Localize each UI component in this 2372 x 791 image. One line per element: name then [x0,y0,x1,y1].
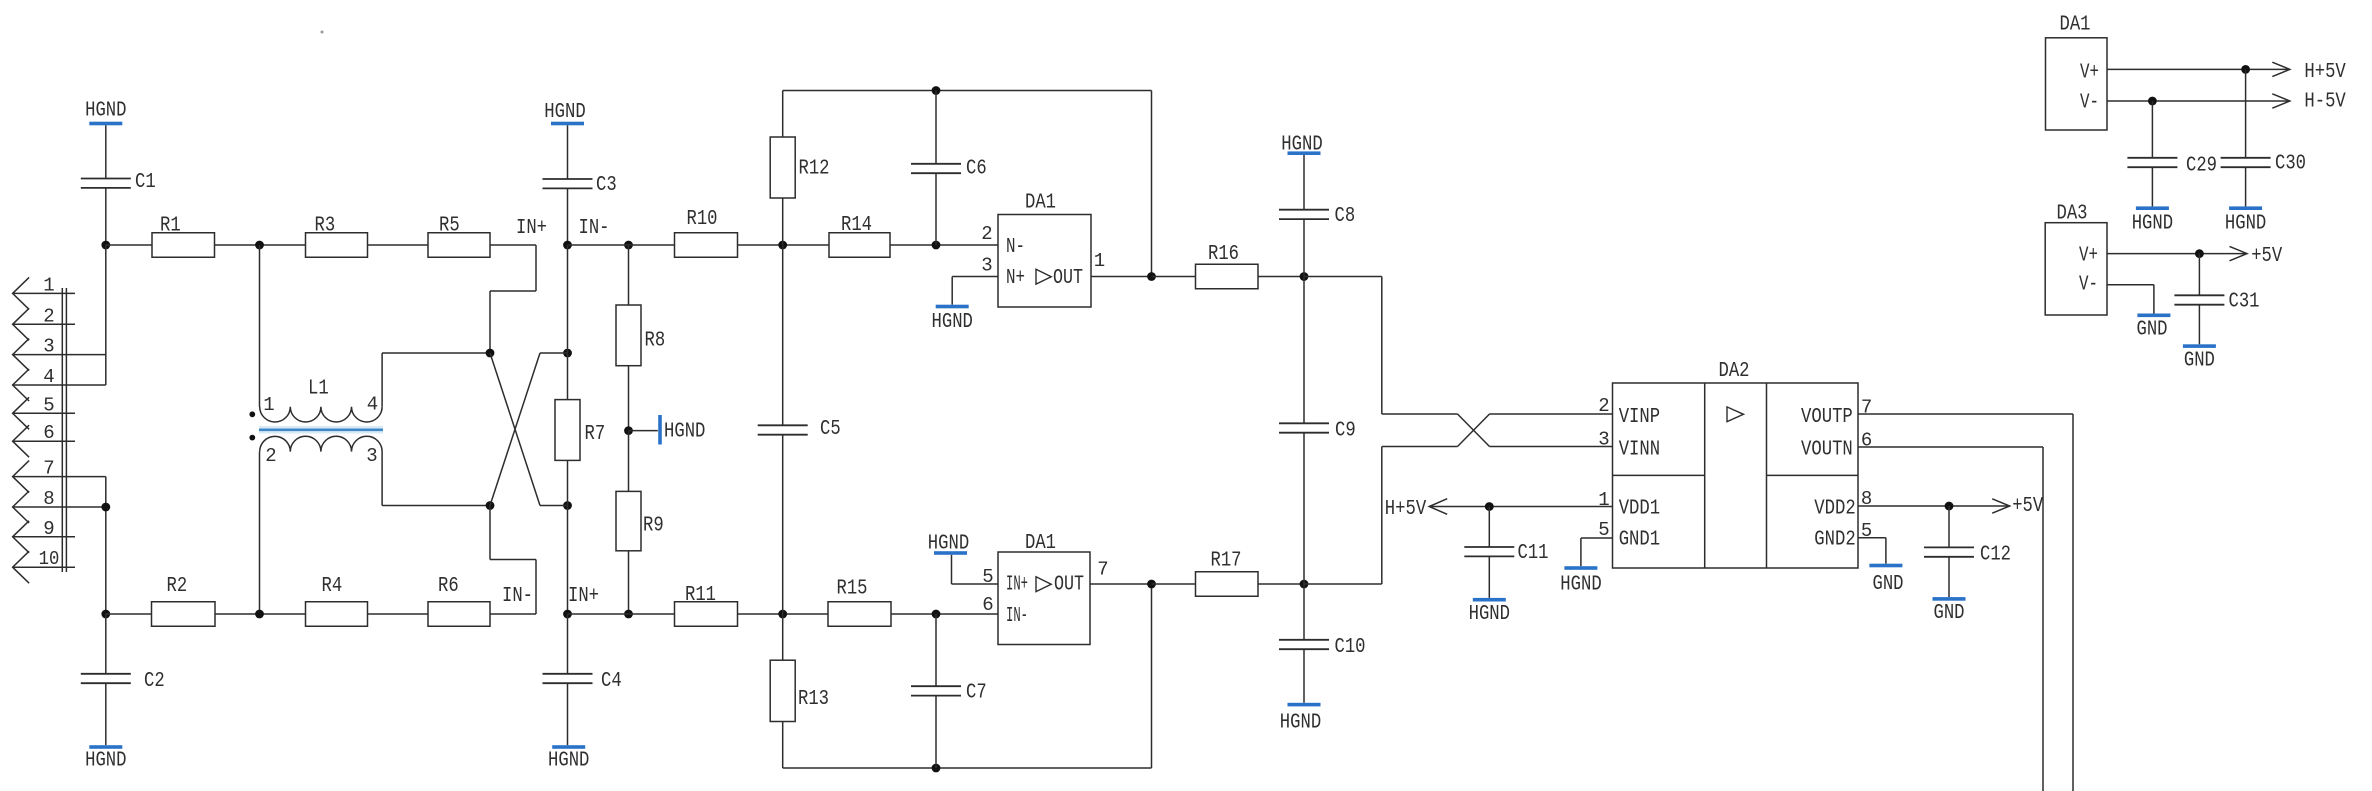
wire C2 to hgnd [105,683,107,745]
junction n18 [1147,580,1156,589]
svg-text:C6: C6 [966,158,987,181]
capacitor C9 [1279,420,1356,443]
svg-text:+5V: +5V [2012,495,2043,518]
svg-text:HGND: HGND [1281,134,1322,157]
wire rail2 to R13 [782,614,784,660]
svg-text:C10: C10 [1335,636,1366,659]
svg-text:C8: C8 [1335,205,1356,228]
wire C6 to rail [935,173,937,245]
wire C10 to hgnd [1303,649,1305,703]
wire C1 to rail [105,188,107,245]
junction n22 [1945,502,1954,511]
junction n19 [1300,272,1309,281]
connector pin 7 [13,458,106,493]
wire DA1t out [1091,276,1152,278]
ground HGND [2132,206,2173,235]
svg-text:C1: C1 [135,171,156,194]
svg-text:R2: R2 [167,575,188,598]
junction n15 [932,86,941,95]
wire C9 to n20 [1303,433,1305,584]
wire R16 to cross [1304,277,1458,415]
svg-text:VINN: VINN [1619,439,1660,462]
svg-text:2: 2 [43,305,54,327]
svg-text:C11: C11 [1518,542,1549,565]
wire C30 to hgnd [2245,167,2247,206]
svg-text:V-: V- [2080,92,2099,115]
svg-text:R1: R1 [160,215,181,238]
op-amp DA1 (bottom) [982,532,1108,645]
svg-text:6: 6 [982,594,993,616]
wire C31 to gnd [2198,305,2200,345]
connector pin 1 [13,274,75,309]
wire rail to R8 [628,245,630,305]
junction n7 [563,610,572,619]
resistor R15 [828,578,891,627]
svg-text:7: 7 [43,458,54,480]
svg-text:R5: R5 [439,215,460,238]
connector bus [62,288,66,572]
connector pin 5 [13,394,75,429]
wire rail to C5 [782,245,784,425]
wire R9 to rail2 [628,551,630,614]
resistor R16 [1196,243,1259,289]
power module DA1 (top right) [2046,14,2108,131]
svg-text:DA2: DA2 [1719,360,1750,383]
wire mid to R9 [628,431,630,492]
ground HGND [85,100,126,126]
wire to C31 [2198,254,2200,296]
svg-text:C4: C4 [601,670,622,693]
op-amp DA1 (top) [981,192,1105,308]
power flag H+5V (VDD1) [1385,498,1613,521]
svg-text:IN+: IN+ [1006,574,1028,597]
ground HGND [544,101,585,125]
junction n25 [2195,249,2204,258]
svg-text:6: 6 [1861,430,1872,452]
connector pin 9 [13,518,75,553]
wire rail2 to C2 [105,614,107,674]
wire C8 to n19 [1303,219,1305,276]
wire L1 pin4 up-right [382,353,490,407]
wire VOUTP out [1858,414,2073,791]
svg-text:R6: R6 [438,575,459,598]
ground HGND [1280,703,1321,735]
svg-text:8: 8 [43,488,54,510]
svg-text:C12: C12 [1980,544,2011,567]
svg-text:HGND: HGND [2225,213,2266,236]
svg-text:IN-: IN- [1006,605,1028,628]
resistor R4 [306,575,368,626]
svg-text:V+: V+ [2079,245,2098,268]
svg-text:HGND: HGND [544,101,585,124]
ground HGND [1281,134,1322,157]
wire n19 to C9 [1303,277,1305,424]
ground HGND [1469,598,1510,626]
svg-text:N+: N+ [1006,267,1025,290]
svg-text:VINP: VINP [1619,406,1660,429]
svg-text:C9: C9 [1335,420,1356,443]
svg-text:DA1: DA1 [2060,14,2091,37]
ground HGND [548,745,589,772]
junction n16 [932,764,941,773]
connector pin 8 [13,488,106,523]
connector pin 6 [13,422,75,457]
wire hgnd to C3 [567,125,569,179]
wire R17 to cross [1304,447,1458,585]
resistor R7 [555,400,605,461]
ground HGND (DA1 bottom pin5) [928,533,998,585]
svg-text:R8: R8 [645,330,666,353]
junction n17 [1147,272,1156,281]
junction n21 [1485,502,1494,511]
junction x2 [563,349,572,358]
wire C4 to hgnd [567,683,569,745]
wire rail2 to C7 [935,614,937,686]
junction n10 [624,610,633,619]
wire to C12 [1948,506,1950,547]
wire C3 to rail [567,188,569,245]
svg-text:3: 3 [366,445,377,467]
resistor R17 [1196,550,1259,597]
resistor R13 [770,660,829,721]
power module DA3 [2045,203,2107,316]
junction n14 [932,610,941,619]
junction x1 [486,349,495,358]
svg-text:+5V: +5V [2251,245,2282,268]
wire DA1b out [1090,583,1152,585]
power flag H-5V [2107,91,2346,114]
resistor R3 [306,215,368,258]
ground GND (GND2) [1858,538,1904,596]
wire C12 to gnd [1948,557,1950,597]
wire C29 to hgnd [2151,167,2153,206]
connector pin 10 [13,548,75,583]
capacitor C2 [81,670,165,693]
wire C11 to hgnd [1488,556,1490,598]
svg-text:C2: C2 [144,670,165,693]
svg-text:C31: C31 [2229,291,2260,314]
ground HGND (DA1 top pin3) [932,277,999,335]
inductor L1 [249,378,383,468]
svg-text:VDD2: VDD2 [1814,498,1855,521]
svg-text:4: 4 [367,394,378,416]
connector pin 4 [13,366,106,401]
svg-text:2: 2 [981,223,992,245]
wire n20 to C10 [1303,584,1305,640]
power flag +5V (VDD2) [1858,495,2044,518]
wire top rail segs [106,244,536,246]
junction n23 [2241,65,2250,74]
svg-text:3: 3 [981,255,992,277]
svg-text:HGND: HGND [2132,213,2173,236]
svg-text:L1: L1 [308,378,329,401]
svg-text:HGND: HGND [664,421,705,444]
svg-text:GND: GND [1934,602,1965,625]
capacitor C6 [911,158,987,181]
svg-text:HGND: HGND [1280,712,1321,735]
svg-text:GND1: GND1 [1619,529,1660,552]
wire fb bottom left [783,584,1152,768]
wire VOUTN out [1858,447,2043,791]
wire crossover to DA2 [1458,414,1613,447]
wire L1 pin3 down-right [382,452,490,506]
junction n11 [778,241,787,250]
wire fbtop to C6 [935,91,937,164]
svg-text:VOUTP: VOUTP [1801,406,1853,429]
ground HGND [2225,206,2266,235]
wire hgnd to C1 [105,125,107,178]
junction n2 [101,503,110,512]
svg-text:1: 1 [1598,489,1609,511]
svg-text:HGND: HGND [1469,603,1510,626]
svg-text:IN+: IN+ [516,217,547,240]
svg-text:7: 7 [1861,397,1872,419]
capacitor C31 [2174,291,2259,314]
capacitor C1 [81,171,156,194]
wire C7 to fb [935,696,937,768]
wire vert 567 upper [567,245,569,400]
wire to C4 [567,614,569,674]
capacitor C29 [2127,155,2217,178]
junction n12 [932,241,941,250]
svg-text:3: 3 [1598,429,1609,451]
svg-text:R14: R14 [841,214,872,237]
resistor R8 [616,305,665,366]
junction n24 [2148,97,2157,106]
capacitor C12 [1924,544,2011,567]
junction x3 [486,501,495,510]
svg-text:H+5V: H+5V [1385,498,1427,521]
svg-text:GND: GND [2184,350,2215,373]
svg-text:R12: R12 [799,158,830,181]
wire rail to L1 pin1 [259,245,261,407]
svg-text:IN+: IN+ [568,585,599,608]
svg-text:GND2: GND2 [1814,529,1855,552]
svg-text:5: 5 [43,394,54,416]
svg-text:2: 2 [1598,395,1609,417]
wire bottom rail left segs [106,613,428,615]
svg-text:R17: R17 [1211,550,1242,573]
svg-text:IN-: IN- [579,217,610,240]
resistor R9 [616,491,664,550]
wire hgnd to C8 [1303,155,1305,210]
wire R5 elbow [490,245,536,353]
capacitor C7 [911,682,987,705]
wire pin7 down to rail2 [105,477,107,614]
resistor R2 [152,575,216,626]
svg-text:DA1: DA1 [1025,192,1056,215]
resistor R10 [675,208,738,257]
connector pin 3 [13,336,106,371]
power flag +5V (DA3) [2107,245,2283,268]
ground HGND (side) [629,415,706,445]
svg-text:1: 1 [263,394,274,416]
svg-text:HGND: HGND [548,750,589,773]
junction n4 [255,241,264,250]
svg-text:R10: R10 [687,208,718,231]
svg-text:GND: GND [1873,573,1904,596]
wire C5 to rail2 [782,435,784,614]
junction n13 [778,610,787,619]
junction n8 [624,241,633,250]
wire R6 hook [490,506,536,615]
svg-text:2: 2 [265,445,276,467]
resistor R14 [829,214,890,257]
wire to C11 [1488,507,1490,548]
wire rail down to pin4 [105,245,107,385]
ground GND [1933,597,1966,625]
svg-text:R16: R16 [1208,243,1239,266]
svg-text:4: 4 [43,366,54,388]
svg-text:HGND: HGND [1560,574,1601,597]
capacitor C4 [543,670,622,693]
svg-text:R3: R3 [315,215,336,238]
wire out to R16 [1152,276,1305,278]
svg-text:5: 5 [1861,520,1872,542]
svg-text:R13: R13 [798,688,829,711]
wire fb top left [783,91,1152,277]
svg-text:C30: C30 [2275,153,2306,176]
wire to C29 [2151,101,2153,158]
svg-text:OUT: OUT [1054,574,1084,597]
junction x4 [563,501,572,510]
wire R8 to mid [628,366,630,431]
resistor R1 [152,215,215,258]
svg-text:H+5V: H+5V [2304,61,2346,84]
svg-text:1: 1 [1094,250,1105,272]
svg-text:R4: R4 [322,575,343,598]
wire to C30 [2245,69,2247,157]
wire bottom rail right segs [568,613,999,615]
svg-text:OUT: OUT [1053,267,1083,290]
svg-text:7: 7 [1097,559,1108,581]
svg-text:R7: R7 [585,423,606,446]
svg-text:DA1: DA1 [1025,532,1056,555]
capacitor C3 [543,174,617,197]
junction n5 [255,610,264,619]
junction n3 [101,610,110,619]
resistor R6 [428,575,490,626]
svg-text:VDD1: VDD1 [1619,498,1660,521]
svg-text:C3: C3 [596,174,617,197]
ground GND [2183,344,2216,372]
svg-text:9: 9 [43,518,54,540]
svg-text:V+: V+ [2080,62,2099,85]
ground HGND [85,745,126,772]
svg-text:HGND: HGND [85,100,126,123]
resistor R12 [770,137,829,198]
svg-text:N-: N- [1006,236,1025,259]
isolation amplifier DA2 [1598,360,1872,568]
power flag H+5V [2107,61,2346,84]
svg-text:H-5V: H-5V [2304,91,2346,114]
svg-text:R15: R15 [837,578,868,601]
capacitor C30 [2221,153,2306,176]
svg-text:GND: GND [2137,319,2168,342]
junction n1 [101,241,110,250]
svg-text:IN-: IN- [502,585,533,608]
svg-text:6: 6 [43,422,54,444]
svg-text:R9: R9 [643,515,664,538]
svg-text:C29: C29 [2186,155,2217,178]
svg-text:HGND: HGND [85,750,126,773]
connector pin 2 [13,305,75,340]
junction n9 [624,426,633,435]
ground GND (DA3 V-) [2107,285,2170,342]
svg-text:VOUTN: VOUTN [1801,439,1853,462]
ground HGND (GND1) [1560,538,1612,597]
capacitor C5 [758,418,841,441]
junction n6 [563,241,572,250]
svg-text:DA3: DA3 [2057,203,2088,226]
capacitor C10 [1279,636,1366,659]
wire R12 to rail [782,198,784,245]
stray mark [321,31,324,34]
wire top rail right segs [568,244,999,246]
svg-text:C5: C5 [820,418,841,441]
svg-text:R11: R11 [685,584,716,607]
svg-text:1: 1 [43,274,54,296]
svg-text:C7: C7 [966,682,987,705]
svg-text:10: 10 [39,548,60,570]
svg-text:V-: V- [2079,274,2098,297]
resistor R11 [675,584,738,626]
svg-text:3: 3 [43,336,54,358]
capacitor C8 [1279,205,1355,228]
wire L1 pin2 down [259,452,261,614]
resistor R5 [428,215,490,258]
junction n20 [1300,580,1309,589]
svg-text:HGND: HGND [932,311,973,334]
wire vert 567 lower [567,460,569,614]
wire crossover diagonals [490,353,568,506]
capacitor C11 [1464,542,1548,565]
wire out to R17 [1152,583,1305,585]
